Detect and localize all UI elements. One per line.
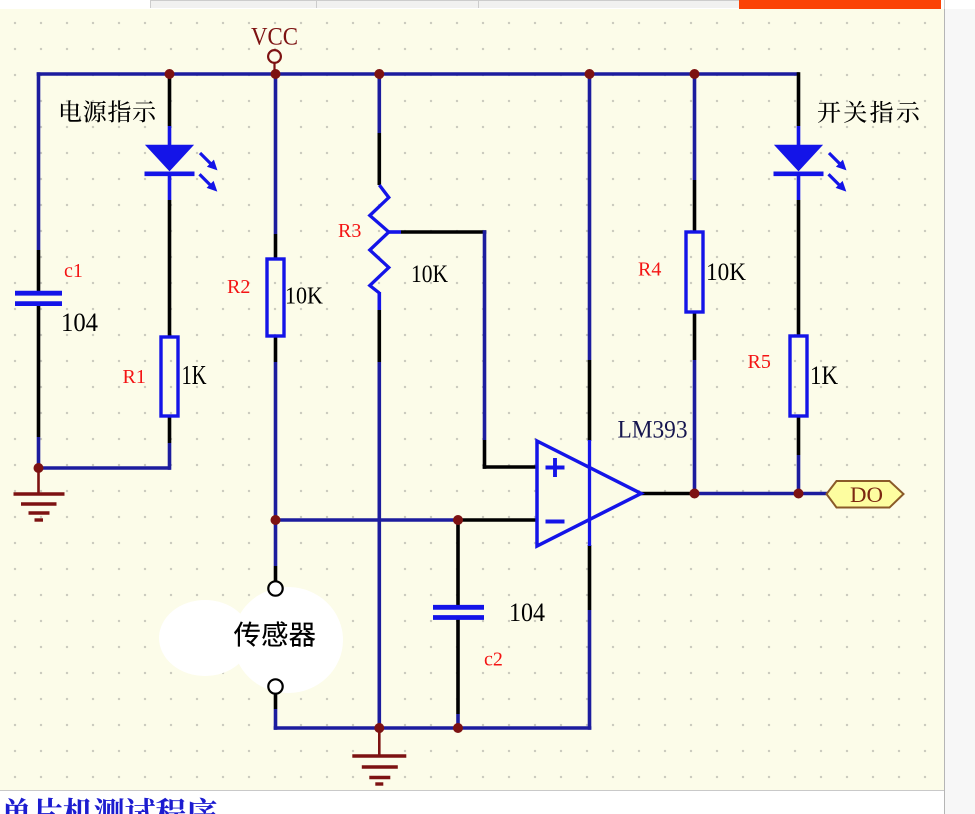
- junction: ground rail/c2: [453, 723, 463, 733]
- right scrollbar column: [944, 0, 975, 814]
- resistor R1 body: [161, 337, 178, 416]
- op-amp - input marker: [546, 520, 565, 524]
- wire: R3 branch from rail: [377, 74, 381, 133]
- port DO: [827, 481, 904, 508]
- junction: rail/R3: [374, 69, 384, 79]
- svg-text:104: 104: [61, 308, 98, 337]
- svg-text:104: 104: [509, 598, 545, 627]
- capacitor c1 plates: [15, 291, 62, 296]
- resistor R4 body: [686, 232, 703, 312]
- LED D2 (switch indicator): [774, 145, 823, 172]
- junction: output/R5: [794, 489, 804, 499]
- wire: c2 bottom to ground rail: [456, 620, 460, 715]
- wire: op-amp power branch from rail: [588, 74, 592, 360]
- svg-text:R3: R3: [338, 220, 361, 242]
- wire: R5 bottom to output node: [797, 416, 801, 455]
- junction: rail/R2-VCC: [271, 69, 281, 79]
- wire: sensor bottom pin to ground rail: [274, 694, 278, 709]
- op-amp U1 LM393 triangle: [537, 441, 641, 546]
- wire: R4 bottom to output node: [693, 312, 697, 360]
- ground symbol left (c1/R1 node): [14, 468, 65, 520]
- wire: LED D1 branch from rail: [168, 74, 172, 126]
- capacitor c2 plates: [433, 605, 484, 610]
- wire: R3 wiper horizontal: [389, 230, 401, 234]
- wire: left branch vertical (c1): [37, 72, 41, 250]
- junction: rail/R4: [690, 69, 700, 79]
- wire: R2 branch from rail: [274, 74, 278, 234]
- junction: ground rail/R3: [374, 723, 384, 733]
- junction: inverting node at R2: [271, 515, 281, 525]
- junction: rail/D1: [165, 69, 175, 79]
- junction: inverting node at c2: [453, 515, 463, 525]
- wire: inverting input horizontal: [276, 518, 459, 522]
- sensor white blob callout: [159, 587, 343, 693]
- svg-text:10K: 10K: [285, 284, 324, 310]
- caption 单片机测试程序 (bottom text, cut off): [2, 798, 217, 814]
- svg-text:R4: R4: [638, 259, 661, 281]
- wire: op-amp output: [640, 492, 692, 496]
- wire: R2 bottom to inverting node: [274, 336, 278, 362]
- junction: output/R4: [690, 489, 700, 499]
- svg-text:1K: 1K: [810, 361, 838, 390]
- ground symbol bottom rail: [352, 728, 406, 784]
- bottom white strip: [0, 790, 944, 814]
- svg-text:R1: R1: [123, 366, 146, 388]
- svg-text:DO: DO: [850, 482, 883, 507]
- svg-text:c2: c2: [484, 649, 503, 671]
- label 传感器 (sensor): [234, 621, 315, 646]
- wire: D1 cathode to R1: [168, 174, 172, 200]
- LED D1 (power indicator): [145, 145, 194, 172]
- svg-text:R2: R2: [227, 276, 250, 298]
- junction: ground node left: [34, 463, 44, 473]
- op-amp + input marker: [546, 458, 565, 477]
- wire: bottom ground rail: [274, 726, 592, 730]
- label 电源指示 (power indicator): [61, 100, 155, 122]
- sensor terminal bottom: [268, 679, 282, 693]
- wire: R3 bottom to ground rail: [377, 292, 381, 310]
- wire: VCC top rail: [37, 72, 799, 76]
- VCC power port: [273, 63, 275, 74]
- resistor R2 body: [267, 259, 284, 336]
- svg-text:LM393: LM393: [618, 417, 688, 444]
- wire: c2 branch down: [456, 520, 460, 606]
- svg-text:1K: 1K: [182, 360, 207, 390]
- svg-text:R5: R5: [748, 351, 771, 373]
- svg-text:VCC: VCC: [251, 24, 298, 51]
- svg-text:10K: 10K: [411, 261, 448, 288]
- wire: bottom-left horizontal to R1: [39, 466, 171, 470]
- resistor R5 body: [790, 336, 807, 416]
- active orange tab: [739, 0, 941, 9]
- wire: to op-amp + input: [483, 465, 537, 469]
- junction: rail/op-amp power: [585, 69, 595, 79]
- op-amp power pin line: [588, 440, 591, 546]
- browser tab bar: [0, 0, 975, 9]
- label 开关指示 (switch indicator): [818, 101, 919, 123]
- wire: R4 branch from rail: [693, 74, 697, 180]
- wire: LED D2 branch from rail: [797, 72, 801, 126]
- potentiometer R3 zigzag: [370, 185, 389, 293]
- wire: wiper vertical down to + input: [483, 230, 487, 440]
- wire: op-amp lower power pin to ground rail: [588, 545, 592, 610]
- svg-text:c1: c1: [64, 260, 83, 282]
- sensor terminal top: [268, 581, 282, 595]
- wire: node to sensor top pin: [274, 520, 278, 566]
- wire: D2 cathode to R5: [797, 174, 801, 200]
- wire: R1 bottom to ground node: [168, 416, 172, 443]
- svg-text:10K: 10K: [706, 259, 746, 286]
